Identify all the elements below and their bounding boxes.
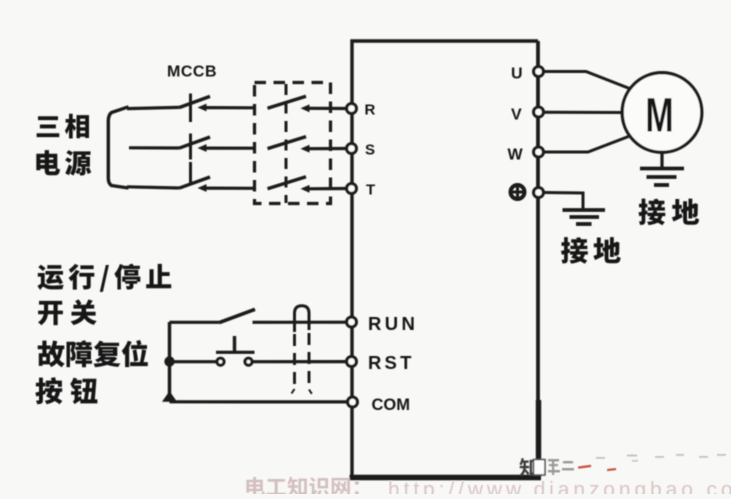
terminal U	[534, 67, 544, 77]
contactor KM mechanical link (dashed)	[285, 84, 288, 203]
control bus vertical wire	[168, 322, 171, 402]
contactor pole 3 arrow	[301, 185, 310, 193]
wire phase S from source	[129, 146, 179, 149]
contactor contact pole 3 blade	[268, 177, 307, 189]
svg-text:U: U	[511, 66, 523, 83]
PE terminal symbol (circle with cross)	[511, 185, 525, 199]
svg-text:COM: COM	[372, 396, 411, 414]
wire W to motor	[545, 137, 629, 153]
run/stop switch wire left	[170, 321, 220, 324]
svg-text:M: M	[645, 88, 673, 142]
svg-text:V: V	[511, 107, 522, 124]
terminal W	[534, 147, 544, 157]
watermark fragment dark 知	[519, 458, 537, 477]
svg-text:RST: RST	[368, 352, 415, 373]
breaker MCCB pole 1 arrow	[198, 104, 207, 112]
svg-text:S: S	[365, 142, 375, 159]
terminal S	[347, 144, 357, 154]
wire PE terminal to earth	[545, 193, 584, 210]
wire T between MCCB and contactor	[204, 187, 256, 190]
contactor contact pole 1 blade	[268, 96, 307, 108]
motor ground stem	[660, 152, 663, 168]
pushbutton contact circle left	[217, 358, 224, 365]
breaker MCCB pole 3 blade	[179, 177, 210, 188]
contactor contact pole 2 blade	[268, 137, 307, 149]
inverter box U1 (VFD outline)	[350, 41, 542, 478]
label 三相电源	[37, 114, 89, 139]
three-phase source bracket	[108, 107, 128, 188]
terminal V	[534, 107, 544, 117]
svg-text:http://www.dianzongbao.com: http://www.dianzongbao.com	[388, 479, 731, 495]
shield leg foot right	[309, 390, 312, 394]
watermark fragment white box	[534, 460, 546, 476]
wire contactor to terminal S	[307, 147, 346, 150]
breaker MCCB pole 2 blade	[179, 137, 210, 148]
terminal RST	[347, 357, 357, 367]
wire switch to RUN terminal	[253, 321, 347, 324]
svg-text:W: W	[508, 147, 524, 164]
wire S between MCCB and contactor	[204, 147, 256, 150]
wire V to motor	[545, 111, 624, 114]
wire phase R from source	[127, 107, 179, 108]
svg-text:R: R	[365, 102, 376, 119]
inverter earth symbol	[563, 210, 606, 224]
shield leg foot left	[292, 389, 295, 394]
watermark fragment red strokes	[578, 465, 616, 471]
contactor pole 1 arrow	[301, 104, 310, 112]
wire phase T from source	[127, 187, 179, 188]
reset pushbutton wire left	[170, 360, 217, 363]
breaker MCCB pole 3 arrow	[198, 184, 207, 192]
motor M	[622, 73, 702, 153]
svg-text:T: T	[366, 182, 375, 199]
junction mark on COM line	[162, 391, 177, 402]
breaker MCCB mechanical link	[189, 94, 192, 186]
wire pushbutton to RST terminal	[253, 360, 346, 363]
COM wire	[170, 400, 348, 403]
pushbutton stem	[233, 336, 236, 352]
wire contactor to terminal R	[307, 107, 346, 110]
shielded cable dashed leg right	[308, 333, 311, 390]
grounding terminal (PE)	[534, 188, 544, 198]
pushbutton contact circle right	[245, 358, 252, 365]
terminal R	[347, 104, 357, 114]
watermark 电工知识网	[246, 477, 359, 497]
watermark fragment faint glyphs	[548, 459, 574, 475]
breaker MCCB pole 1 blade	[179, 96, 210, 107]
svg-text:MCCB: MCCB	[167, 64, 217, 81]
wire R between MCCB and contactor	[204, 106, 256, 109]
svg-text:RUN: RUN	[368, 313, 418, 334]
label 开关	[38, 299, 97, 325]
motor earth symbol	[640, 169, 684, 186]
wire contactor to terminal T	[307, 187, 346, 191]
junction dot on RST line	[164, 356, 174, 366]
label 运行/停止	[38, 264, 172, 292]
contactor KM dashed enclosure	[255, 83, 331, 204]
run/stop switch blade	[219, 309, 255, 322]
watermark fragment scattered gray specks	[596, 454, 726, 462]
terminal T	[347, 184, 357, 194]
label 按钮	[35, 377, 97, 404]
shielded cable dashed leg left	[293, 334, 296, 390]
label 接地 (inverter)	[561, 237, 621, 264]
pushbutton bridge bar	[216, 351, 255, 354]
shielded cable arch	[295, 306, 310, 332]
wire U to motor	[545, 72, 630, 89]
terminal COM	[348, 397, 358, 407]
breaker MCCB pole 2 arrow	[198, 144, 207, 152]
terminal RUN	[347, 317, 357, 327]
label 故障复位	[38, 340, 148, 367]
label 接地 (motor)	[639, 199, 700, 226]
contactor pole 2 arrow	[301, 145, 310, 153]
